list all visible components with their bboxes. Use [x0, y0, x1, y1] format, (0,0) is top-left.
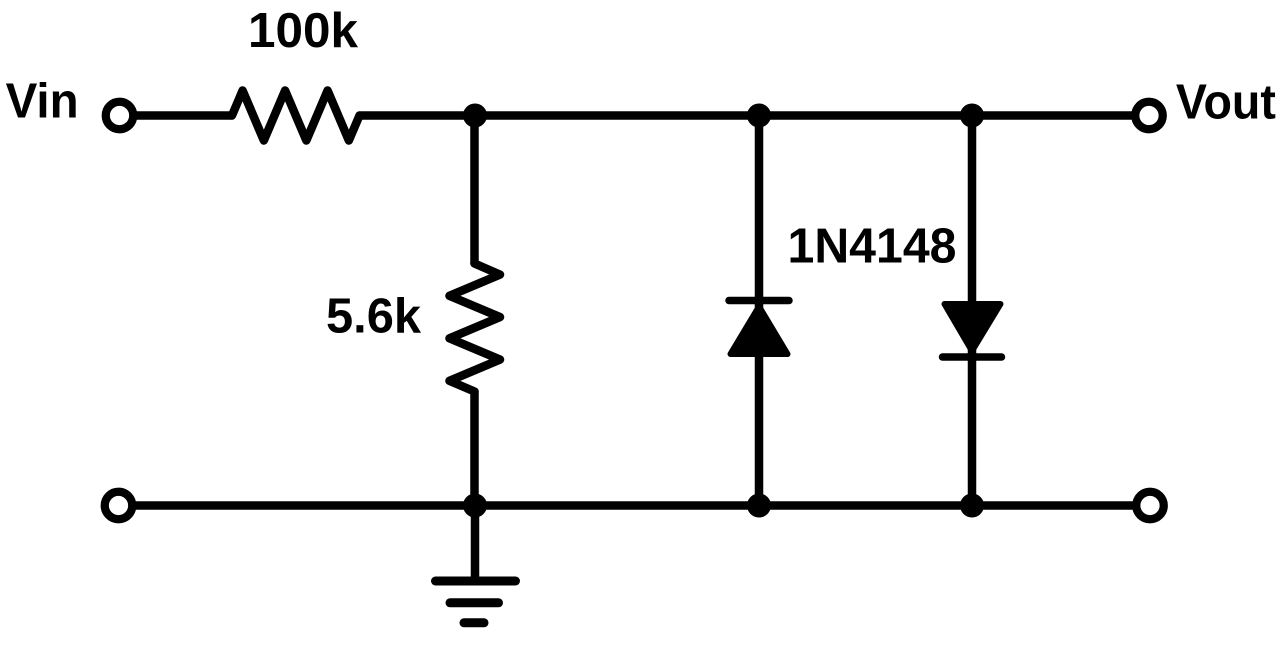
junction top of D2: [960, 104, 984, 128]
svg-text:Vin: Vin: [6, 75, 79, 129]
diode D1 cathode bar: [729, 297, 789, 305]
bottom rail wire: [132, 501, 1137, 510]
ground bar 3: [464, 618, 484, 627]
wire branch diode D2: [968, 116, 977, 506]
svg-text:5.6k: 5.6k: [326, 290, 422, 344]
ground bar 1: [436, 577, 516, 586]
resistor R1: [232, 91, 360, 141]
wire node A to R2: [470, 116, 479, 265]
wire R1 to Vout: [360, 111, 1150, 120]
svg-text:Vout: Vout: [1176, 76, 1276, 130]
wire Vin to R1: [133, 111, 232, 120]
ground bar 2: [450, 598, 499, 607]
junction bottom of D1: [747, 494, 771, 518]
junction node A top of R2: [463, 104, 487, 128]
wire branch diode D1: [755, 116, 764, 506]
svg-text:100k: 100k: [248, 4, 359, 58]
junction top of D1: [747, 104, 771, 128]
wire to ground: [471, 506, 480, 578]
terminal bottom left: [105, 492, 133, 520]
terminal bottom right: [1136, 492, 1164, 520]
resistor R2: [450, 264, 501, 392]
terminal Vin: [106, 102, 134, 130]
diode D2 triangle: [945, 304, 1001, 351]
terminal Vout: [1135, 102, 1163, 130]
wire R2 to bottom rail: [470, 392, 479, 506]
diode D2 cathode bar: [943, 353, 1002, 361]
junction ground node: [463, 494, 487, 518]
junction bottom of D2: [960, 494, 984, 518]
svg-text:1N4148: 1N4148: [788, 220, 957, 274]
diode D1 triangle: [731, 307, 788, 355]
